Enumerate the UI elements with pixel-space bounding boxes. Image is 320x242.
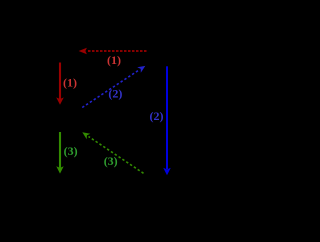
process arrow (3) solid green vertical (56, 132, 63, 174)
svg-text:(1): (1) (63, 75, 77, 89)
svg-text:(2): (2) (150, 109, 164, 123)
process arrow (2) solid blue vertical (163, 66, 171, 175)
message arrow (3) dashed diagonal up-left (82, 132, 143, 173)
message arrow (2) dashed diagonal up-right (82, 66, 145, 108)
svg-text:(3): (3) (64, 144, 78, 158)
svg-text:(1): (1) (107, 53, 121, 67)
svg-text:(2): (2) (108, 87, 122, 101)
process arrow (1) solid red vertical (56, 63, 64, 105)
svg-text:(3): (3) (104, 154, 118, 168)
message arrow (1) dashed, right-to-left (79, 48, 147, 54)
